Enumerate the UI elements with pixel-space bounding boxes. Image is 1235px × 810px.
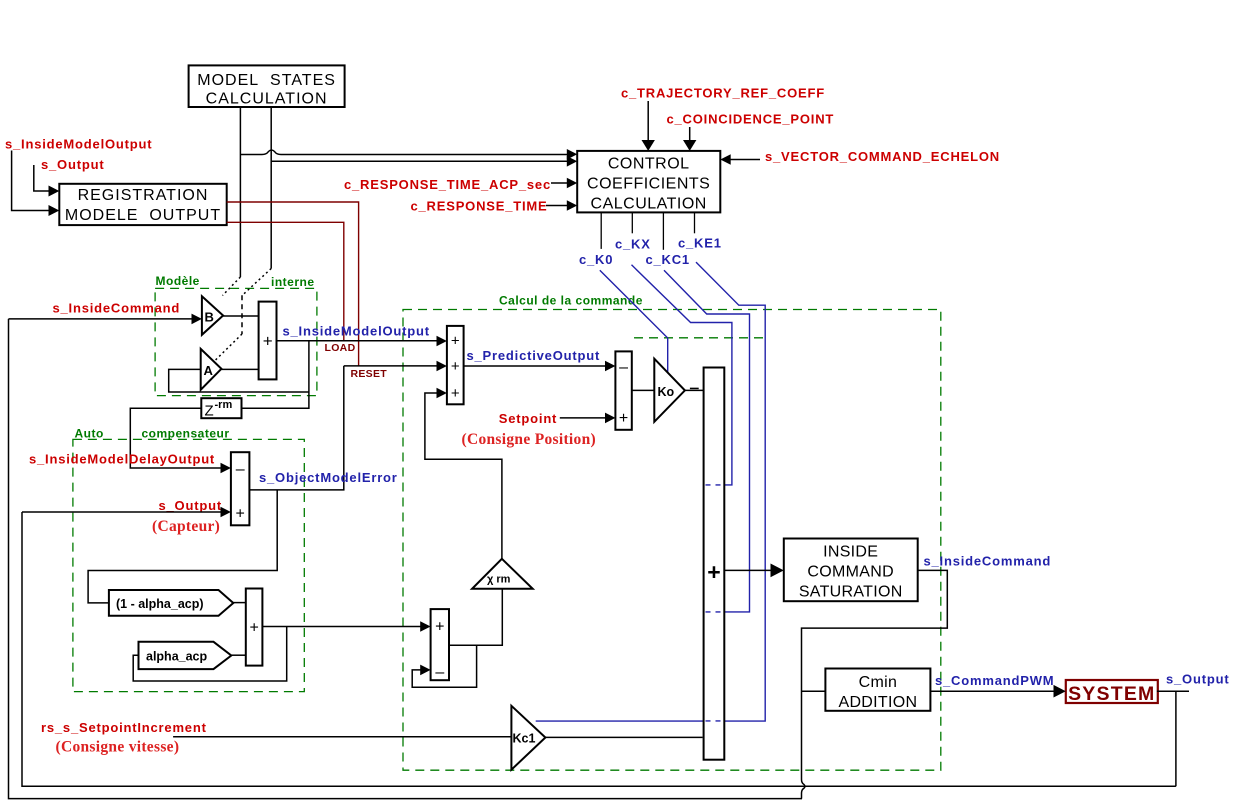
- wire c_RESPONSE_TIME_ACP_sec arrow: [551, 182, 568, 184]
- svg-text:s_CommandPWM: s_CommandPWM: [935, 673, 1054, 688]
- wire filter output to integrator: [262, 626, 421, 628]
- svg-text:s_VECTOR_COMMAND_ECHELON: s_VECTOR_COMMAND_ECHELON: [765, 149, 1000, 164]
- svg-text:Modèle: Modèle: [156, 274, 200, 288]
- wire gain Ko to main summation: [685, 389, 704, 391]
- wire c_KX to summation (blue): [632, 265, 732, 485]
- svg-text:alpha_acp: alpha_acp: [146, 650, 208, 664]
- svg-text:c_RESPONSE_TIME: c_RESPONSE_TIME: [411, 199, 548, 214]
- svg-text:COMMAND: COMMAND: [807, 564, 894, 581]
- wire error branch down to filters: [88, 490, 277, 603]
- blue dashed input mark c_KE1: [706, 720, 723, 722]
- svg-text:B: B: [205, 310, 214, 325]
- svg-text:–: –: [619, 359, 628, 376]
- blue dashed input mark c_KX: [706, 484, 723, 486]
- wire Setpoint into error summation: [560, 417, 607, 419]
- wire outer feedback loop (left/bottom): [9, 319, 803, 799]
- tag (1 - alpha_acp): [109, 590, 233, 616]
- svg-text:Z: Z: [205, 403, 214, 420]
- wire MODEL STATES output 2 (vertical): [270, 107, 272, 268]
- svg-text:s_Output: s_Output: [159, 498, 222, 513]
- wire s_InsideCommand into gain B: [9, 318, 194, 320]
- sign minus on Ko input: [690, 387, 699, 389]
- svg-text:Calcul de la commande: Calcul de la commande: [499, 294, 643, 308]
- svg-text:rs_s_SetpointIncrement: rs_s_SetpointIncrement: [41, 720, 207, 735]
- svg-text:+: +: [435, 619, 444, 636]
- dotted parameter line to gain A (lower diagonal): [215, 334, 242, 361]
- blue dashed input mark c_KC1: [706, 611, 723, 613]
- svg-text:Kc1: Kc1: [513, 732, 536, 746]
- svg-text:χ rm: χ rm: [487, 574, 511, 586]
- svg-text:(Consigne Position): (Consigne Position): [462, 431, 596, 448]
- gain Ko: [654, 359, 685, 422]
- svg-text:+: +: [707, 559, 720, 585]
- green dashed box Modele interne: [155, 288, 317, 395]
- svg-text:interne: interne: [271, 275, 315, 289]
- wire MODEL STATES output 1 (vertical): [239, 107, 241, 277]
- svg-text:c_COINCIDENCE_POINT: c_COINCIDENCE_POINT: [667, 112, 835, 127]
- svg-text:c_K0: c_K0: [579, 252, 613, 267]
- wire model output branch down to delay: [242, 341, 309, 409]
- wire integrator output to X rm: [449, 589, 502, 646]
- wire rs_s_SetpointIncrement to gain Kc1: [173, 736, 511, 738]
- gain A: [201, 349, 222, 390]
- svg-text:compensateur: compensateur: [142, 426, 230, 440]
- svg-text:CALCULATION: CALCULATION: [206, 91, 328, 108]
- wire comparator output s_ObjectModelError: [249, 366, 343, 490]
- svg-text:s_InsideCommand: s_InsideCommand: [53, 301, 181, 316]
- wire s_Output feedback (left/bottom): [22, 512, 1176, 786]
- block delay z^-rm: [201, 398, 241, 419]
- integrator summation block: [431, 609, 449, 681]
- wire c_RESPONSE_TIME arrow: [546, 205, 568, 207]
- gain B: [202, 296, 223, 335]
- wire s_Output feedback into comparator: [22, 511, 222, 513]
- svg-text:+: +: [451, 385, 460, 402]
- predictive summation block: [447, 326, 464, 404]
- svg-text:c_TRAJECTORY_REF_COEFF: c_TRAJECTORY_REF_COEFF: [621, 86, 825, 101]
- wire error summation to gain Ko: [632, 389, 655, 391]
- svg-text:s_PredictiveOutput: s_PredictiveOutput: [467, 348, 601, 363]
- wire s_VECTOR arrow: [730, 159, 760, 161]
- svg-text:–: –: [236, 461, 245, 478]
- gain X rm: [472, 559, 533, 589]
- error summation block (Ko input): [615, 351, 631, 429]
- wire hop over s_Output line: [802, 780, 806, 794]
- wire filter feedback through alpha_acp: [133, 627, 287, 682]
- filter summation block: [246, 589, 263, 666]
- wire s_Output into registration: [34, 165, 49, 191]
- svg-text:Ko: Ko: [658, 385, 675, 399]
- svg-text:s_InsideModelDelayOutput: s_InsideModelDelayOutput: [29, 452, 215, 467]
- wire SYSTEM output: [1157, 690, 1189, 692]
- wire states bus 2 to control box: [272, 160, 569, 162]
- svg-text:INSIDE: INSIDE: [823, 544, 878, 561]
- svg-text:COEFFICIENTS: COEFFICIENTS: [587, 176, 710, 193]
- svg-text:c_KE1: c_KE1: [678, 236, 722, 251]
- svg-text:-rm: -rm: [215, 399, 233, 411]
- svg-text:+: +: [451, 358, 460, 375]
- svg-text:Cmin: Cmin: [859, 674, 898, 691]
- tag alpha_acp: [139, 642, 232, 669]
- wire c_KE1 to gain Kc1 (blue): [696, 262, 765, 721]
- svg-text:c_KC1: c_KC1: [646, 252, 690, 267]
- svg-text:+: +: [236, 506, 245, 523]
- svg-text:SYSTEM: SYSTEM: [1068, 683, 1155, 705]
- svg-text:RESET: RESET: [351, 368, 388, 380]
- svg-text:s_InsideModelOutput: s_InsideModelOutput: [283, 324, 430, 339]
- block CONTROL COEFFICIENTS CALCULATION: [577, 151, 720, 213]
- svg-text:+: +: [263, 332, 273, 351]
- svg-text:s_Output: s_Output: [1166, 672, 1229, 687]
- svg-text:s_ObjectModelError: s_ObjectModelError: [259, 470, 398, 485]
- wire integrator feedback: [412, 645, 476, 687]
- green dashed inner segment: [634, 337, 769, 339]
- wire control coefficient output stubs: [601, 212, 694, 249]
- wire down to bottom loop: [801, 793, 803, 799]
- dotted parameter line to gain B: [223, 277, 241, 296]
- wire registration LOAD output (maroon): [227, 222, 344, 341]
- wire c_KC1 to summation (blue): [664, 270, 750, 612]
- wire s_PredictiveOutput: [464, 365, 607, 367]
- wire tag1 to filter summation: [233, 602, 246, 604]
- wire X rm output to predictive summation: [425, 393, 502, 559]
- svg-text:s_InsideModelOutput: s_InsideModelOutput: [5, 137, 152, 152]
- wire c_K0 to gain Ko (blue): [600, 270, 668, 372]
- wire branch into Cmin ADDITION: [802, 690, 826, 692]
- svg-text:+: +: [250, 620, 259, 637]
- wire gain A to summation: [221, 368, 258, 370]
- gain Kc1: [511, 706, 545, 770]
- green dashed box Auto compensateur: [73, 439, 304, 691]
- svg-text:–: –: [435, 664, 444, 681]
- svg-text:A: A: [204, 363, 214, 378]
- green dashed box Calcul de la commande: [403, 310, 941, 771]
- svg-text:CONTROL: CONTROL: [608, 156, 690, 173]
- svg-text:s_InsideCommand: s_InsideCommand: [924, 553, 1052, 568]
- svg-text:(1 - alpha_acp): (1 - alpha_acp): [116, 597, 204, 611]
- wire saturation output loop: [802, 570, 948, 779]
- wire s_InsideModelOutput into registration: [12, 151, 49, 211]
- svg-text:CALCULATION: CALCULATION: [591, 196, 707, 213]
- wire registration RESET output (maroon): [227, 202, 359, 366]
- block INSIDE COMMAND SATURATION: [784, 539, 918, 602]
- svg-text:MODEL STATES: MODEL STATES: [197, 72, 336, 89]
- dashed parameter line to gain A (vertical): [241, 295, 243, 334]
- svg-text:LOAD: LOAD: [325, 342, 356, 354]
- block Cmin ADDITION: [825, 669, 930, 712]
- svg-text:+: +: [451, 333, 460, 350]
- block REGISTRATION MODELE OUTPUT: [59, 184, 226, 225]
- svg-text:SATURATION: SATURATION: [799, 584, 903, 601]
- svg-text:s_Output: s_Output: [41, 157, 104, 172]
- dotted parameter line to gain A (upper diagonal): [242, 269, 271, 296]
- svg-text:Auto: Auto: [75, 426, 104, 440]
- wire SYSTEM output down to feedback: [1175, 691, 1177, 786]
- wire RESET net into predictive summation: [344, 365, 438, 367]
- svg-text:Setpoint: Setpoint: [499, 411, 557, 426]
- wire main summation output (thick): [724, 569, 772, 571]
- wire Cmin ADDITION output s_CommandPWM: [930, 690, 1056, 692]
- wire c_COINCIDENCE arrow: [689, 127, 691, 141]
- svg-text:c_KX: c_KX: [615, 237, 651, 252]
- svg-text:c_RESPONSE_TIME_ACP_sec: c_RESPONSE_TIME_ACP_sec: [344, 177, 551, 192]
- main summation block (tall): [704, 368, 725, 760]
- wire tag2 to filter summation: [231, 654, 246, 656]
- wire gain A input loop: [169, 369, 309, 392]
- wire delay output to comparator: [130, 408, 222, 468]
- comparator subtract block: [231, 452, 250, 525]
- svg-text:REGISTRATION: REGISTRATION: [78, 187, 209, 204]
- svg-text:ADDITION: ADDITION: [838, 694, 917, 711]
- wire c_TRAJECTORY arrow: [647, 101, 649, 141]
- wire model output s_InsideModelOutput: [277, 340, 439, 342]
- block SYSTEM: [1066, 680, 1158, 705]
- svg-text:MODELE OUTPUT: MODELE OUTPUT: [65, 207, 221, 224]
- wire c_KE1 segment left of summation (blue): [536, 720, 703, 722]
- summation model (internal): [259, 302, 277, 380]
- block MODEL STATES CALCULATION: [189, 65, 345, 107]
- wire gain Kc1 to main summation: [545, 736, 702, 738]
- svg-text:(Consigne vitesse): (Consigne vitesse): [56, 739, 180, 756]
- svg-text:+: +: [619, 410, 628, 427]
- wire gain B to summation: [223, 315, 259, 317]
- svg-text:(Capteur): (Capteur): [152, 518, 220, 535]
- wire states bus 1 to control box (with hop): [240, 150, 568, 155]
